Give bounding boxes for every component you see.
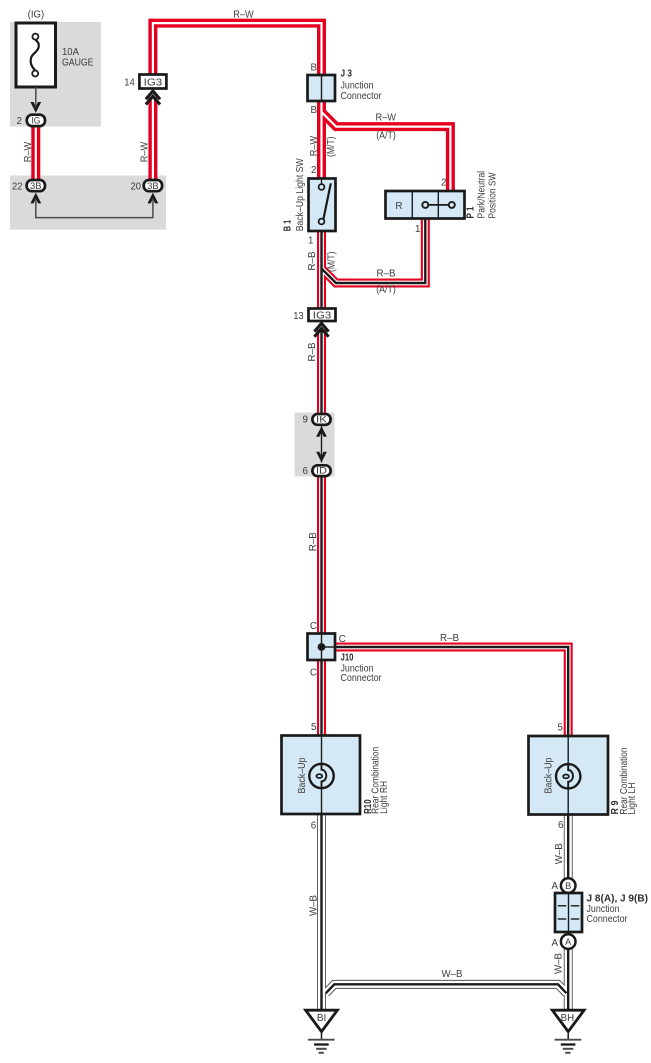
wire W-B R9 pin6 to junction B (outline layer) <box>564 814 573 880</box>
svg-text:6: 6 <box>303 466 309 477</box>
lamp R9 rear combination light LH <box>529 736 609 815</box>
svg-text:B 1: B 1 <box>283 219 294 231</box>
connector IG3 pin13 box <box>309 309 336 322</box>
svg-text:2: 2 <box>441 178 446 189</box>
svg-text:R–W: R–W <box>23 141 34 162</box>
svg-text:R: R <box>395 201 402 212</box>
wire R-B J10 to R9 pin5 (white gap) <box>334 647 568 738</box>
svg-text:(M/T): (M/T) <box>326 137 337 158</box>
shade block IK/ID <box>295 413 335 477</box>
svg-text:5: 5 <box>311 722 317 733</box>
arrows between IK and ID <box>321 426 323 462</box>
svg-text:9: 9 <box>303 415 308 426</box>
svg-text:A: A <box>565 937 572 947</box>
svg-text:R–B: R–B <box>307 342 318 361</box>
wire W-B junction A to ground BH (black core) <box>567 949 569 1011</box>
wire R-B J10 to R10 pin5 (red layer) <box>317 659 326 737</box>
svg-text:2: 2 <box>17 116 22 127</box>
wire R-B J10 to R10 pin5 (black core) <box>320 659 322 737</box>
svg-text:B: B <box>310 62 317 73</box>
svg-text:IG3: IG3 <box>144 77 163 88</box>
wire W-B ground link horizontal (outline layer) <box>326 984 567 993</box>
connector node IK pin9 <box>312 414 330 425</box>
svg-text:6: 6 <box>558 820 564 831</box>
svg-text:(A/T): (A/T) <box>376 131 396 142</box>
wire W-B R10 pin6 to ground BI (outline layer) <box>317 813 326 1011</box>
wire R-B IG3 pin13 to IK pin9 (red layer) <box>317 330 326 419</box>
switch B1 back-up light <box>309 179 336 232</box>
wire R-B IG3 pin13 to IK pin9 (black core) <box>320 330 322 419</box>
chevron under IG3 pin14 <box>146 91 160 99</box>
wire R-W A/T branch J3 to P1 pin2 (red layer) <box>322 112 451 192</box>
wire R-W IG3 pin14 down to 3B pin20 (white stripe) <box>152 97 154 186</box>
wire R-B B1 pin1 to IG3 pin13 (red layer) <box>317 230 326 310</box>
connector node ID pin6 <box>312 465 330 476</box>
svg-text:R–W: R–W <box>139 141 150 162</box>
svg-text:13: 13 <box>293 311 304 322</box>
svg-text:20: 20 <box>131 181 142 192</box>
shade block fuse area <box>10 22 101 127</box>
wire W-B R9 pin6 to junction B (white body) <box>565 814 572 880</box>
switch P1 park/neutral position <box>386 191 465 219</box>
svg-text:Junction: Junction <box>341 80 374 91</box>
lamp R10 rear combination light RH <box>282 736 361 815</box>
svg-text:IG3: IG3 <box>313 310 332 321</box>
svg-text:R–W: R–W <box>375 113 396 124</box>
svg-text:R–B: R–B <box>377 269 396 280</box>
svg-text:2: 2 <box>311 165 316 176</box>
wire R-B J10 to R10 pin5 (white gap) <box>319 659 324 737</box>
svg-text:Connector: Connector <box>587 914 629 925</box>
svg-text:R–B: R–B <box>307 251 318 270</box>
svg-text:Back–Up: Back–Up <box>543 757 554 793</box>
svg-text:6: 6 <box>311 821 317 832</box>
svg-text:Connector: Connector <box>341 673 383 684</box>
arrow link under 3B connectors <box>30 193 41 204</box>
wire R-W fuse IG to 3B pin22 (red layer) <box>31 120 40 186</box>
svg-text:W–B: W–B <box>309 895 320 916</box>
svg-text:C: C <box>339 634 346 645</box>
svg-text:Back–Up: Back–Up <box>297 757 308 793</box>
wire R-B B1 pin1 to IG3 pin13 (white gap) <box>319 230 324 310</box>
svg-text:IG: IG <box>31 116 40 126</box>
wire R-W J3 to B1 pin2 (white stripe) <box>320 100 322 180</box>
svg-text:Back–Up Light SW: Back–Up Light SW <box>295 158 306 232</box>
svg-text:1: 1 <box>308 236 313 247</box>
svg-text:5: 5 <box>558 723 564 734</box>
svg-text:A: A <box>551 881 558 892</box>
wire R-W A/T branch (white stripe) <box>322 112 451 192</box>
svg-text:R–B: R–B <box>308 532 319 551</box>
wire R-B ID pin6 to J10 (white gap) <box>319 469 324 635</box>
svg-text:Connector: Connector <box>341 91 383 102</box>
wire W-B R10 pin6 to ground BI (white body) <box>318 813 325 1011</box>
wire R-W J3 to B1 pin2 (red layer) <box>317 100 326 180</box>
svg-text:P 1: P 1 <box>466 206 477 218</box>
wire R-B A/T branch (black core) <box>322 217 426 283</box>
svg-text:B: B <box>310 105 317 116</box>
connector node B <box>561 878 576 893</box>
connector node IG pin2 <box>27 115 45 126</box>
junction connector J10 <box>308 634 336 661</box>
fuse element <box>32 34 38 40</box>
shade block connector band <box>10 176 166 230</box>
wire R-B J10 to R9 pin5 (red layer) <box>334 647 568 738</box>
svg-text:BI: BI <box>317 1013 327 1024</box>
svg-text:B: B <box>565 881 571 891</box>
wire R-W IG3 pin14 up over to J3 (red layer) <box>153 23 322 75</box>
svg-text:GAUGE: GAUGE <box>62 57 94 68</box>
svg-text:(A/T): (A/T) <box>376 285 396 296</box>
svg-text:A: A <box>551 938 558 949</box>
wire R-B IG3 pin13 to IK pin9 (white gap) <box>319 330 324 419</box>
fuse 10A GAUGE box <box>16 23 56 87</box>
wire W-B junction A to ground BH (outline layer) <box>564 949 573 1011</box>
ground BH <box>552 1010 584 1031</box>
svg-text:C: C <box>310 667 317 678</box>
svg-text:R–W: R–W <box>233 9 254 20</box>
connector IG3 pin14 box <box>139 75 166 89</box>
svg-text:W–B: W–B <box>442 969 463 980</box>
svg-text:W–B: W–B <box>554 843 565 864</box>
wire W-B junction A to ground BH (white body) <box>565 949 572 1011</box>
arrow fuse to IG connector <box>35 87 37 106</box>
wire R-B J10 to R9 pin5 (black core) <box>334 647 568 738</box>
svg-text:3B: 3B <box>30 181 42 191</box>
connector node 3B pin22 <box>27 180 45 191</box>
svg-text:IK: IK <box>316 414 328 424</box>
wire R-W IG3 pin14 down to 3B pin20 (red layer) <box>148 97 157 186</box>
svg-text:BH: BH <box>561 1013 575 1024</box>
svg-text:R–W: R–W <box>309 135 320 156</box>
svg-text:(IG): (IG) <box>28 10 45 21</box>
svg-text:Position SW: Position SW <box>487 172 498 219</box>
wire R-B ID pin6 to J10 (black core) <box>320 469 322 635</box>
svg-text:1: 1 <box>415 224 420 235</box>
connector node A <box>561 934 576 949</box>
svg-text:ID: ID <box>316 466 327 476</box>
wire W-B ground link horizontal (white body) <box>326 984 567 993</box>
svg-text:W–B: W–B <box>554 953 565 974</box>
wire R-B ID pin6 to J10 (red layer) <box>317 469 326 635</box>
wire W-B R9 pin6 to junction B (black core) <box>567 814 569 880</box>
svg-text:3B: 3B <box>147 181 159 191</box>
svg-text:14: 14 <box>124 78 135 89</box>
wire R-W fuse IG to 3B pin22 (white stripe) <box>35 120 37 186</box>
svg-text:(M/T): (M/T) <box>327 252 338 273</box>
svg-text:22: 22 <box>12 181 23 192</box>
svg-text:R–B: R–B <box>440 633 459 644</box>
svg-text:Park/Neutral: Park/Neutral <box>477 171 488 219</box>
connector node 3B pin20 <box>144 180 162 191</box>
svg-text:Light RH: Light RH <box>379 781 390 814</box>
wire R-B A/T branch P1 pin1 to main (red layer) <box>322 217 426 283</box>
chevron under IG3 pin13 <box>314 323 328 331</box>
ground BI <box>306 1010 338 1031</box>
junction connector J8(A) J9(B) <box>555 893 582 932</box>
wire W-B R10 pin6 to ground BI (black core) <box>320 813 322 1011</box>
svg-text:C: C <box>310 621 317 632</box>
svg-text:J 3: J 3 <box>341 68 353 79</box>
wire W-B ground link horizontal (black core) <box>326 984 567 993</box>
svg-text:J10: J10 <box>341 653 354 664</box>
wire R-B A/T branch (white gap) <box>322 217 426 283</box>
svg-text:Light LH: Light LH <box>627 783 638 815</box>
wire R-W IG3 pin14 up over to J3 (white stripe) <box>153 23 322 75</box>
junction connector J3 <box>308 75 336 101</box>
wire R-B B1 pin1 to IG3 pin13 (black core) <box>320 230 322 310</box>
